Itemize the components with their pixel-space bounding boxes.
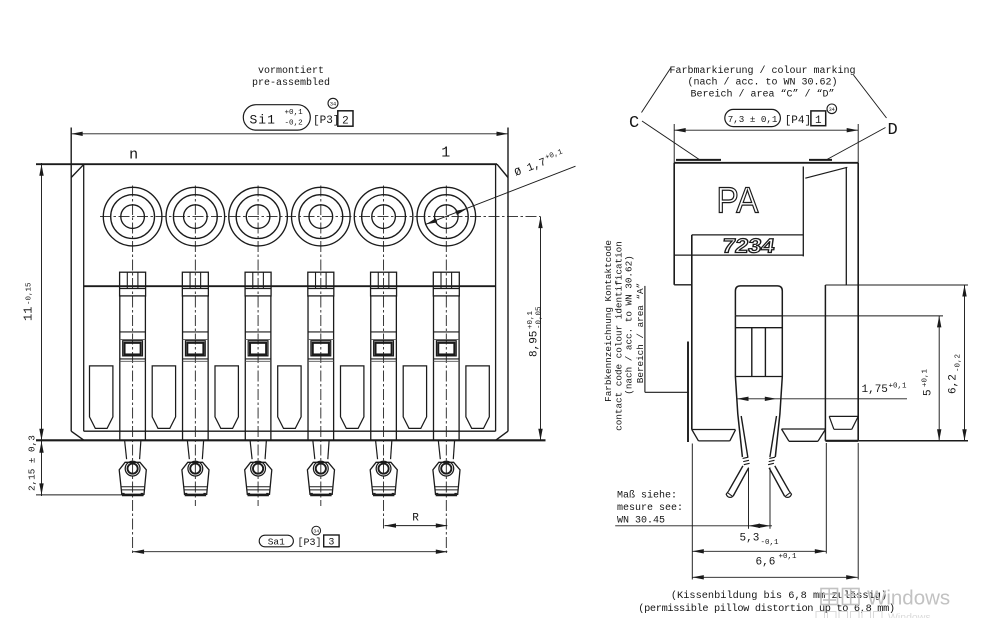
contact pin horizontal 2 <box>735 327 782 329</box>
bottom dimension Sa1 line <box>133 551 448 553</box>
svg-text:1: 1 <box>441 145 450 162</box>
contact 3 top cap <box>245 272 271 296</box>
svg-text:-0,15: -0,15 <box>26 282 34 305</box>
dimension 1,75 +0,1 leader <box>737 398 907 400</box>
contact pin rounded top <box>735 286 782 316</box>
contact 5 top cap <box>371 272 397 296</box>
svg-text:vormontiert: vormontiert <box>258 65 324 77</box>
svg-text:1,75: 1,75 <box>862 384 888 396</box>
body bottom edge (thick) with extensions <box>36 439 546 441</box>
contact 2 column <box>182 296 184 440</box>
contact 6 vertical centerline <box>445 186 447 555</box>
svg-text:6,2: 6,2 <box>948 374 960 394</box>
housing left step <box>674 284 692 286</box>
leader D to note <box>854 75 887 118</box>
housing colour marking area C (top-left tick) <box>676 159 721 161</box>
svg-text:Bereich / area “A”: Bereich / area “A” <box>635 283 646 383</box>
svg-text:R: R <box>412 513 419 525</box>
dimension 6,6 +0,1 extension lines <box>691 444 693 580</box>
cavity slot 3 <box>215 366 238 429</box>
contact pin side walls <box>734 316 736 377</box>
housing left edge lower <box>691 235 693 430</box>
svg-text:[P4]: [P4] <box>785 115 811 127</box>
svg-text:Windows: Windows <box>888 612 931 618</box>
crimp leg right lower <box>775 466 789 491</box>
leader D to housing mark <box>826 128 886 161</box>
dimension 7,3 +-0,1 line <box>674 129 858 131</box>
shelf right of pin <box>782 428 826 430</box>
svg-text:n: n <box>129 147 138 164</box>
top dimension line Si1 (overall width) <box>71 133 508 135</box>
svg-text:3: 3 <box>328 537 334 548</box>
housing inner vertical near right edge <box>845 167 847 284</box>
crimp leg right upper inner edge <box>770 416 777 457</box>
contact pin taper + crimp leg left outer <box>735 377 742 458</box>
svg-text:C: C <box>629 114 639 133</box>
svg-text:-0,2: -0,2 <box>285 120 304 128</box>
contact 1 concentric circles <box>103 187 162 246</box>
contact 4 top cap <box>308 272 334 296</box>
tolerance frame 7,3 oval <box>725 109 781 126</box>
right box latch notch trapezoid <box>829 415 858 417</box>
dimension 6,2 -0,2 <box>964 285 966 441</box>
svg-text:-0,05: -0,05 <box>535 306 543 329</box>
svg-text:-0,2: -0,2 <box>955 354 963 372</box>
housing top-right chamfer edge <box>805 167 847 178</box>
housing colour marking area D (top-right tick) <box>809 159 832 161</box>
crimp leg left upper inner edge <box>741 416 748 457</box>
contact 1 column <box>119 296 121 440</box>
diameter text 1,7 +0,1 <box>513 148 567 179</box>
watermark activate Windows <box>821 589 859 605</box>
contact 2 concentric circles <box>166 187 225 246</box>
left dimension 2,15 +-0,3 <box>39 441 43 453</box>
leader area A to flange <box>645 391 689 393</box>
svg-text:34: 34 <box>313 529 319 535</box>
svg-text:Si1: Si1 <box>250 113 276 128</box>
mounting flange plate (edge-on) <box>687 342 689 443</box>
svg-text:+0,1: +0,1 <box>527 310 535 329</box>
contact 5 vertical centerline <box>383 186 385 529</box>
svg-text:8,95: 8,95 <box>529 331 541 357</box>
diameter callout leader for contact hole <box>425 166 576 224</box>
housing left edge upper <box>673 163 675 285</box>
svg-text:Sa1: Sa1 <box>268 536 285 547</box>
housing top edge <box>674 162 858 164</box>
connector body outline - top edge <box>36 163 497 165</box>
body inner bottom line <box>84 430 496 432</box>
svg-text:+0,1: +0,1 <box>922 368 930 387</box>
right box left edge <box>824 285 826 441</box>
contact 5 latch window <box>374 341 394 356</box>
contact 3 solder foot <box>250 440 252 459</box>
extension line at 5 (top) <box>782 315 943 317</box>
body bottom-right chamfer <box>496 431 508 440</box>
svg-text:Bereich / area “C” / “D”: Bereich / area “C” / “D” <box>690 89 834 101</box>
svg-text:[P3]: [P3] <box>298 537 322 549</box>
dimension 6,6 +0,1 line <box>692 550 826 552</box>
contact pin taper + crimp leg right outer <box>775 377 782 458</box>
shelf left of pin <box>692 429 736 431</box>
crimp leg right hatch <box>769 457 775 458</box>
contact pin horizontal at top box <box>735 315 782 317</box>
contact 4 solder foot <box>313 440 315 459</box>
right dimension 8,95 +0,1/-0,05 <box>540 217 542 441</box>
svg-text:Windows: Windows <box>867 587 950 610</box>
left dimension 11 -0,15 <box>41 163 43 496</box>
svg-text:7234: 7234 <box>721 236 777 258</box>
label band top line <box>692 234 804 236</box>
leader C to housing mark <box>642 121 700 160</box>
svg-text:pre-assembled: pre-assembled <box>252 77 330 89</box>
horizontal centerline through contact circles <box>100 216 541 218</box>
cavity slot 6 <box>403 366 426 429</box>
crimp leg left foot tip <box>726 491 733 498</box>
contact 1 vertical centerline <box>132 186 134 555</box>
body outer right edge / extension <box>507 128 509 432</box>
body inner right wall <box>495 164 497 431</box>
crimp leg right foot tip <box>785 491 792 498</box>
svg-text:Farbkennzeichnung Kontaktcode: Farbkennzeichnung Kontaktcode <box>603 240 614 402</box>
contact 5 column <box>370 296 372 440</box>
svg-text:(nach / acc. to WN 30.62): (nach / acc. to WN 30.62) <box>624 255 635 394</box>
contact 5 concentric circles <box>354 187 413 246</box>
tolerance frame Si1 oval <box>243 105 310 130</box>
contact 6 column <box>433 296 435 440</box>
dimension R between last two feet <box>385 525 448 527</box>
svg-text:11: 11 <box>22 307 36 321</box>
crimp leg left lower <box>729 466 743 491</box>
svg-text:7,3 ± 0,1: 7,3 ± 0,1 <box>728 114 778 125</box>
svg-text:5: 5 <box>923 389 935 396</box>
svg-text:+0,1: +0,1 <box>779 553 798 561</box>
dimension 5,3 -0,1 line with leader from WN 30.45 <box>615 525 772 527</box>
contact 6 top cap <box>433 272 459 296</box>
svg-text:+0,1: +0,1 <box>889 383 908 391</box>
svg-text:WN 30.45: WN 30.45 <box>617 516 665 527</box>
cavity slot 1 <box>90 366 113 429</box>
svg-text:D: D <box>888 121 898 140</box>
cavity slot 2 <box>152 366 175 429</box>
cavity slot 4 <box>278 366 301 429</box>
cavity slot 5 <box>341 366 364 429</box>
contact 4 column <box>307 296 309 440</box>
svg-text:mesure see:: mesure see: <box>617 503 683 514</box>
contact 3 concentric circles <box>229 187 288 246</box>
svg-text:-0,1: -0,1 <box>761 539 780 547</box>
underline for Bereich area A <box>644 286 646 392</box>
extension line bottom for 5 and 6,2 <box>858 440 968 442</box>
body top-left chamfer <box>71 164 84 177</box>
contact 1 latch window <box>123 341 143 356</box>
svg-text:[P3]: [P3] <box>313 115 339 127</box>
svg-text:PA: PA <box>717 180 759 221</box>
dimension 5,3 -0,1 extension lines <box>748 468 750 529</box>
contact 3 latch window <box>248 341 268 356</box>
svg-text:2,15 ± 0,3: 2,15 ± 0,3 <box>27 435 38 491</box>
svg-text:2: 2 <box>342 115 349 127</box>
watermark small line <box>0 0 1 1</box>
contact 6 solder foot <box>438 440 440 459</box>
body top-right chamfer <box>497 164 508 177</box>
contact 4 vertical centerline <box>320 186 322 507</box>
leader C to note <box>642 68 672 113</box>
contact 5 solder foot <box>376 440 378 459</box>
dimension 5 +0,1 <box>938 316 940 441</box>
svg-text:(nach / acc. to WN 30.62): (nach / acc. to WN 30.62) <box>687 77 837 89</box>
svg-text:+0,1: +0,1 <box>285 109 304 117</box>
extension line top for 6,2 <box>825 284 968 286</box>
contact 2 solder foot <box>187 440 189 459</box>
body inner left wall <box>83 164 85 431</box>
svg-text:6,6: 6,6 <box>756 557 776 569</box>
svg-text:Farbmarkierung / colour markin: Farbmarkierung / colour marking <box>669 65 855 77</box>
contact 3 column <box>244 296 246 440</box>
contact 6 concentric circles <box>417 187 476 246</box>
svg-text:34: 34 <box>330 102 336 108</box>
body mid horizontal line <box>84 285 496 287</box>
svg-text:34: 34 <box>829 107 835 113</box>
contact 2 latch window <box>185 341 205 356</box>
bottom overall dimension line (pillow distortion) <box>857 443 859 580</box>
contact 3 vertical centerline <box>257 186 259 507</box>
label band bottom line <box>674 254 803 256</box>
contact pin horizontal 3 <box>735 376 782 378</box>
svg-text:5,3: 5,3 <box>740 533 760 545</box>
housing right edge <box>857 163 859 441</box>
body bottom-left chamfer <box>71 431 84 440</box>
body outer left edge / extension <box>70 128 72 432</box>
crimp leg left hatch <box>743 457 749 458</box>
right box bottom edge (thick) <box>825 440 858 442</box>
svg-text:Maß siehe:: Maß siehe: <box>617 490 677 502</box>
contact pin inner verticals (spring) <box>751 328 753 377</box>
tolerance frame Sa1 oval <box>259 535 293 547</box>
contact 4 latch window <box>311 341 331 356</box>
contact 1 top cap <box>120 272 146 296</box>
cavity slot 7 <box>466 366 489 429</box>
contact 2 vertical centerline <box>194 186 196 507</box>
svg-text:(Kissenbildung bis 6,8 mm zulä: (Kissenbildung bis 6,8 mm zulässig) <box>671 590 887 602</box>
date code 7234 (outline) <box>721 236 777 258</box>
contact 2 top cap <box>182 272 208 296</box>
contact 4 concentric circles <box>292 187 351 246</box>
contact 1 solder foot <box>125 440 127 459</box>
housing inner vertical at front face right <box>802 167 804 257</box>
svg-text:1: 1 <box>815 115 822 127</box>
contact 6 latch window <box>436 341 456 356</box>
